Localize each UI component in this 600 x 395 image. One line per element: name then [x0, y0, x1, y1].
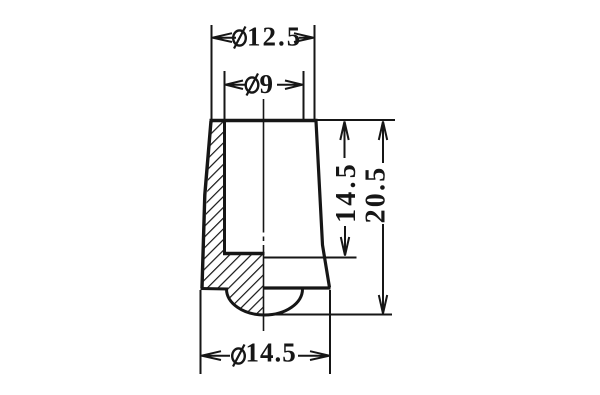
- phi14.5 right arrow: [298, 351, 330, 360]
- phi9 left extension line: [224, 71, 226, 119]
- phi12.5 left arrow: [213, 33, 237, 42]
- bottom face left segment: [201, 287, 229, 291]
- phi14.5 left extension line: [200, 290, 202, 374]
- centerline lower segment: [263, 245, 265, 331]
- right outer wall: [316, 121, 330, 288]
- phi12.5 left extension line: [211, 25, 213, 119]
- svg-text:14.5: 14.5: [246, 338, 297, 368]
- dimension phi12.5: [212, 22, 315, 120]
- section hatching (left half section area): [202, 121, 264, 316]
- 20.5 bottom arrow: [379, 224, 387, 314]
- phi symbol of phi14.5: [232, 345, 245, 367]
- phi9 right arrow: [277, 81, 303, 90]
- phi symbol of phi9: [246, 74, 259, 96]
- phi symbol of phi12.5: [233, 27, 246, 49]
- phi14.5 left arrow: [202, 351, 231, 360]
- bottom dome arc: [227, 289, 303, 315]
- cavity bottom edge: [223, 252, 265, 255]
- centerline upper segment: [263, 99, 265, 233]
- 20.5 top arrow: [379, 122, 387, 164]
- phi9 right extension line: [303, 71, 305, 119]
- bottom face right segment: [263, 286, 331, 289]
- phi12.5 right extension line: [314, 25, 316, 119]
- 14.5 bottom extension line: [264, 257, 357, 259]
- phi12.5 right arrow: [294, 33, 314, 42]
- svg-text:12.5: 12.5: [247, 22, 302, 52]
- dimension 20.5 (total height): [265, 122, 392, 315]
- svg-text:9: 9: [260, 69, 276, 99]
- top face edge: [210, 119, 318, 122]
- dimension phi14.5: [201, 290, 331, 374]
- svg-text:14.5: 14.5: [331, 161, 362, 223]
- phi9 left arrow: [226, 81, 246, 90]
- 14.5 top extension line (top face extended): [317, 119, 395, 121]
- inner cavity left wall: [223, 121, 226, 254]
- phi14.5 right extension line: [329, 290, 331, 374]
- 14.5 bottom arrow: [341, 226, 349, 256]
- svg-text:20.5: 20.5: [360, 166, 391, 224]
- 20.5 bottom extension line: [265, 314, 392, 316]
- 14.5 top arrow: [340, 122, 348, 159]
- dimension phi9: [225, 69, 304, 119]
- left outer wall: [202, 121, 211, 288]
- dimension 14.5 (cavity depth): [264, 120, 396, 258]
- centerline short dash: [263, 237, 265, 242]
